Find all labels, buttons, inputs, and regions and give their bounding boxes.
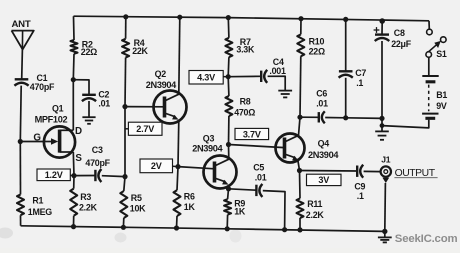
node Q2 base junction xyxy=(122,104,127,109)
wire Q1 source down xyxy=(72,152,75,176)
wire rail to S1 xyxy=(428,21,430,29)
node C3 junction xyxy=(122,174,127,179)
svg-text:R6: R6 xyxy=(184,191,195,201)
svg-text:Q4: Q4 xyxy=(318,138,330,148)
node C7 rail junction xyxy=(343,17,348,22)
label R1 value xyxy=(28,196,52,217)
switch S1 xyxy=(426,29,446,57)
resistor R9 xyxy=(224,199,231,214)
resistor R3 xyxy=(70,189,77,216)
svg-text:470pF: 470pF xyxy=(85,158,110,168)
wire R7 to C4 node xyxy=(227,57,230,76)
ground below C2 xyxy=(82,117,95,124)
wire Q2 emitter down xyxy=(177,120,180,167)
wire 2V stub xyxy=(173,165,179,167)
svg-text:G: G xyxy=(33,133,41,144)
wire Q4 collector up xyxy=(298,117,300,136)
svg-text:3.3K: 3.3K xyxy=(236,45,255,55)
resistor R1 xyxy=(17,195,24,216)
svg-text:C8: C8 xyxy=(394,28,405,38)
wire Q4 emitter down xyxy=(298,159,300,171)
svg-text:2.7V: 2.7V xyxy=(136,124,154,134)
wire C7 node to ground node xyxy=(346,117,382,120)
wire base node down to C3 node xyxy=(124,107,126,177)
svg-text:MPF102: MPF102 xyxy=(35,114,68,124)
svg-text:1K: 1K xyxy=(184,202,196,212)
wire Q1 drain up xyxy=(72,80,74,131)
label C5 value xyxy=(253,162,267,182)
svg-text:R11: R11 xyxy=(307,199,322,209)
resistor R2 xyxy=(71,40,78,54)
plus sign C8 xyxy=(374,27,380,33)
label C7 value xyxy=(355,68,366,88)
svg-text:2N3904: 2N3904 xyxy=(146,80,177,90)
label R8 value xyxy=(234,96,255,117)
svg-text:22Ω: 22Ω xyxy=(309,46,325,56)
svg-text:OUTPUT: OUTPUT xyxy=(395,168,436,179)
svg-text:.01: .01 xyxy=(255,172,267,182)
wire source node to C3 xyxy=(74,175,95,177)
wire rail to R4 xyxy=(125,17,127,39)
label R7 value xyxy=(236,37,255,55)
label R5 value xyxy=(130,193,146,214)
capacitor C1 xyxy=(14,79,28,85)
wire R1 to ground rail xyxy=(20,215,22,226)
svg-text:3V: 3V xyxy=(318,175,329,185)
resistor R8 xyxy=(225,96,232,116)
node source junction xyxy=(71,173,76,178)
label R11 value xyxy=(306,199,325,220)
capacitor C4 xyxy=(261,70,267,83)
wire battery return xyxy=(382,120,429,128)
watermark SeekIC.com xyxy=(395,233,458,245)
wire gate node to Q1 gate xyxy=(20,141,44,143)
svg-text:4.3V: 4.3V xyxy=(197,73,215,83)
svg-text:22μF: 22μF xyxy=(391,39,412,49)
wire C6 to C7 node xyxy=(325,117,346,119)
svg-text:D: D xyxy=(75,126,82,137)
wire C8 down xyxy=(381,41,383,118)
svg-text:2.2K: 2.2K xyxy=(306,210,325,220)
ground battery xyxy=(375,131,389,139)
svg-text:B1: B1 xyxy=(436,90,447,100)
capacitor C6 xyxy=(319,111,325,123)
wire rail to C8 xyxy=(381,21,383,35)
wire J1 to ground rail xyxy=(384,183,387,231)
wire Q3 base xyxy=(178,167,215,169)
wire R6 to ground rail xyxy=(176,216,179,228)
resistor R4 xyxy=(122,39,129,58)
connector J1 xyxy=(381,166,391,183)
label B1 value xyxy=(436,90,447,111)
node C6 C7 junction xyxy=(343,115,348,120)
node drain junction xyxy=(71,77,76,82)
label ANT xyxy=(12,19,31,30)
svg-text:.001: .001 xyxy=(269,66,286,76)
svg-text:470pF: 470pF xyxy=(30,82,55,92)
label Q3 xyxy=(203,134,215,144)
label R6 value xyxy=(184,191,196,212)
wire drain node to C2 xyxy=(73,80,89,95)
svg-text:Q2: Q2 xyxy=(155,69,167,79)
svg-text:C6: C6 xyxy=(316,88,327,98)
resistor R6 xyxy=(174,190,181,216)
transistor Q3 2N3904 xyxy=(204,156,237,189)
svg-text:.01: .01 xyxy=(98,99,110,109)
svg-text:R3: R3 xyxy=(80,192,91,202)
node gate junction xyxy=(18,139,23,144)
svg-text:22K: 22K xyxy=(132,46,148,56)
capacitor C9 xyxy=(357,165,363,178)
svg-text:R1: R1 xyxy=(32,196,43,206)
transistor Q2 2N3904 xyxy=(154,91,187,124)
svg-text:1MEG: 1MEG xyxy=(28,207,52,217)
svg-text:R8: R8 xyxy=(240,96,251,106)
label R2 value xyxy=(81,39,97,57)
voltage label 2.7V xyxy=(128,122,162,135)
wire 2.7V stub xyxy=(125,128,128,130)
wire C4 node to R8 xyxy=(227,77,230,96)
node C4 junction xyxy=(226,74,231,79)
svg-text:C5: C5 xyxy=(253,162,264,172)
wire S1 to battery xyxy=(428,57,430,75)
svg-text:C3: C3 xyxy=(92,145,103,155)
svg-text:.01: .01 xyxy=(316,98,328,108)
wire C2 to ground xyxy=(88,101,90,117)
node R10 rail junction xyxy=(298,16,303,21)
wire rail to R7 xyxy=(227,18,230,38)
svg-text:R10: R10 xyxy=(309,37,325,47)
capacitor C5 xyxy=(256,184,262,197)
svg-text:1K: 1K xyxy=(234,206,246,216)
node R7 rail junction xyxy=(226,15,231,20)
svg-text:.1: .1 xyxy=(356,78,363,88)
wire Q4 base xyxy=(229,145,285,148)
node R5 rail junction xyxy=(121,225,126,230)
node Q2 collector rail junction xyxy=(177,15,182,20)
svg-text:C9: C9 xyxy=(354,182,365,192)
wire rail to R10 xyxy=(300,19,302,35)
resistor R11 xyxy=(297,198,304,218)
capacitor C3 xyxy=(95,169,101,182)
wire 4.3V stub xyxy=(223,76,228,78)
label C6 value xyxy=(316,88,328,108)
svg-text:S: S xyxy=(75,153,82,164)
wire C5 to ground rail xyxy=(263,191,285,230)
wire bottom ground rail xyxy=(21,226,385,232)
label OUTPUT xyxy=(394,168,437,179)
wire R11 to ground rail xyxy=(299,218,301,230)
voltage label 2V xyxy=(140,159,173,173)
label Q4 xyxy=(318,138,330,148)
wire C4 node to C4 xyxy=(228,75,261,77)
wire Q4 emitter to C9 xyxy=(300,170,358,173)
antenna ANT xyxy=(12,31,34,50)
node Q2 emitter junction xyxy=(175,164,180,169)
wire R3 to ground rail xyxy=(73,216,75,227)
label C4 value xyxy=(269,57,286,76)
svg-text:S1: S1 xyxy=(436,49,447,59)
label S1 xyxy=(436,49,447,59)
node rail ground junction xyxy=(382,229,387,234)
resistor R10 xyxy=(297,34,304,56)
node Q4 emitter junction xyxy=(297,168,302,173)
pin label G xyxy=(33,133,41,144)
node Q3 emitter junction xyxy=(226,186,231,191)
voltage label 4.3V xyxy=(189,71,223,85)
capacitor C7 xyxy=(339,71,353,77)
voltage label 1.2V xyxy=(37,169,70,181)
transistor Q4 2N3904 xyxy=(276,134,305,163)
label Q2 2N3904 xyxy=(146,80,177,90)
node Q3 collector junction xyxy=(226,142,231,147)
wire Q3 collector up xyxy=(228,145,230,160)
label Q2 xyxy=(155,69,167,79)
node R3 rail junction xyxy=(71,224,76,229)
node R6 rail junction xyxy=(174,225,179,230)
wire Q4 emitter to R11 xyxy=(299,171,302,199)
label Q3 2N3904 xyxy=(192,144,223,154)
pin label S xyxy=(75,153,82,164)
node R9 rail junction xyxy=(225,226,230,231)
svg-text:2V: 2V xyxy=(151,161,162,171)
svg-text:2.2K: 2.2K xyxy=(79,203,98,213)
wire gate node to R1 xyxy=(19,142,21,195)
wire collector node to C6 xyxy=(300,116,319,118)
label R9 value xyxy=(234,198,246,216)
svg-text:470Ω: 470Ω xyxy=(234,107,255,117)
capacitor C2 xyxy=(82,95,96,101)
wire 1.2V stub xyxy=(70,174,74,176)
wire C3 to base divider xyxy=(102,175,125,178)
label R4 value xyxy=(132,38,148,56)
label C1 value xyxy=(30,73,55,92)
label J1 xyxy=(381,154,391,164)
wire Q3 emitter to R9 xyxy=(227,189,230,199)
wire R9 to ground rail xyxy=(226,215,228,229)
wire Q3 emitter to C5 xyxy=(229,189,257,190)
label R10 value xyxy=(309,37,325,57)
battery B1 xyxy=(422,76,439,118)
svg-text:R5: R5 xyxy=(131,193,142,203)
wire Q2 base xyxy=(125,106,165,108)
wire C9 to J1 xyxy=(364,170,381,172)
wire top supply rail xyxy=(74,16,430,21)
wire R8 to Q3 collector xyxy=(228,116,230,145)
label Q1 xyxy=(52,103,64,113)
resistor R5 xyxy=(120,191,127,218)
ground rail symbol xyxy=(378,234,392,243)
label R3 value xyxy=(79,192,98,213)
wire Q3 emitter down xyxy=(228,185,230,189)
ground below C4 xyxy=(278,91,292,98)
pin label D xyxy=(75,126,82,137)
wire emitter node to R6 xyxy=(177,167,178,191)
svg-text:9V: 9V xyxy=(436,101,447,111)
label C2 value xyxy=(98,90,110,109)
capacitor C8 xyxy=(375,35,390,41)
wire C4 to ground xyxy=(268,76,286,90)
svg-text:22Ω: 22Ω xyxy=(81,47,97,57)
node C5 rail junction xyxy=(282,227,287,232)
svg-text:C7: C7 xyxy=(355,68,366,78)
wire Q2 collector to rail xyxy=(179,17,180,94)
wire C1 to gate node xyxy=(19,86,22,142)
wire source node to R3 xyxy=(73,176,75,189)
transistor Q1 MPF102 JFET xyxy=(44,126,75,157)
svg-text:2N3904: 2N3904 xyxy=(308,150,339,160)
wire R5 to ground rail xyxy=(122,218,124,227)
svg-text:10K: 10K xyxy=(130,203,146,213)
label Q4 2N3904 xyxy=(308,150,339,160)
resistor R7 xyxy=(225,38,232,57)
svg-text:Q1: Q1 xyxy=(52,103,64,113)
wire rail to C7 xyxy=(345,19,347,71)
label C3 value xyxy=(85,145,110,168)
wire C3 node to R5 xyxy=(124,177,125,191)
svg-text:3.7V: 3.7V xyxy=(243,129,261,139)
label C9 value xyxy=(354,182,365,202)
svg-text:ANT: ANT xyxy=(12,19,31,30)
label MPF102 xyxy=(35,114,68,124)
svg-text:Q3: Q3 xyxy=(203,134,215,144)
wire antenna to C1 xyxy=(21,49,24,79)
svg-text:SeekIC.com: SeekIC.com xyxy=(395,233,458,245)
voltage label 3V xyxy=(307,174,342,185)
wire R4 to Q2 base node xyxy=(124,58,127,107)
svg-text:2N3904: 2N3904 xyxy=(192,144,223,154)
wire C7 down xyxy=(345,78,347,118)
wire R10 to collector node xyxy=(299,56,302,117)
voltage label 3.7V xyxy=(235,128,269,139)
wire ground node down xyxy=(381,118,383,131)
node R11 rail junction xyxy=(297,227,302,232)
wire rail to R2 xyxy=(73,16,76,40)
node battery return junction xyxy=(380,123,385,128)
node R4 rail junction xyxy=(123,14,128,19)
node ground junction xyxy=(379,116,384,121)
svg-text:1.2V: 1.2V xyxy=(45,170,63,180)
svg-text:.1: .1 xyxy=(357,191,364,201)
wire R2 to drain node xyxy=(72,54,75,80)
node C8 rail junction xyxy=(379,18,385,24)
svg-text:J1: J1 xyxy=(381,154,391,164)
node Q4 collector junction xyxy=(297,115,302,120)
label C8 value xyxy=(391,28,412,49)
